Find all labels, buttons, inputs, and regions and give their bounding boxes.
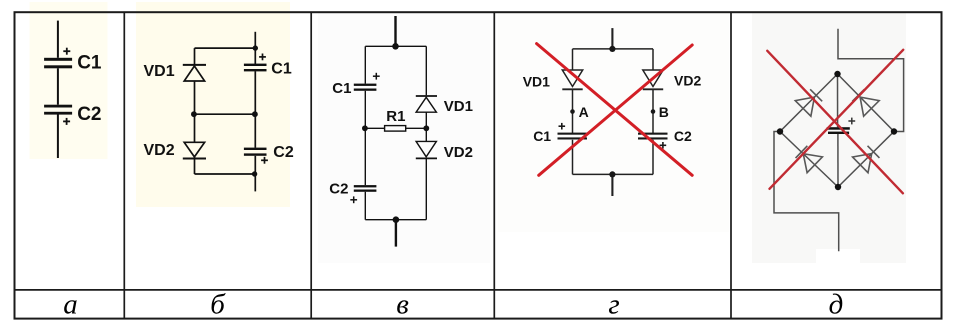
svg-text:A: A	[579, 104, 589, 120]
svg-text:VD1: VD1	[523, 73, 550, 89]
svg-text:г: г	[608, 289, 619, 321]
svg-text:VD1: VD1	[444, 98, 473, 115]
svg-text:б: б	[210, 289, 226, 321]
svg-text:C1: C1	[77, 52, 102, 73]
svg-text:VD2: VD2	[674, 72, 701, 88]
svg-text:C2: C2	[273, 144, 294, 161]
svg-text:а: а	[63, 289, 78, 321]
svg-text:C2: C2	[329, 181, 348, 198]
svg-text:VD1: VD1	[144, 63, 175, 80]
svg-text:VD2: VD2	[444, 144, 473, 161]
svg-text:C1: C1	[271, 61, 292, 78]
svg-text:в: в	[396, 289, 409, 321]
svg-text:VD2: VD2	[144, 142, 175, 159]
svg-text:C1: C1	[533, 128, 551, 144]
svg-text:C1: C1	[332, 80, 351, 97]
svg-text:C2: C2	[674, 128, 692, 144]
svg-text:C2: C2	[77, 104, 101, 125]
svg-text:B: B	[659, 104, 669, 120]
svg-text:R1: R1	[386, 108, 405, 125]
svg-text:д: д	[829, 289, 844, 321]
